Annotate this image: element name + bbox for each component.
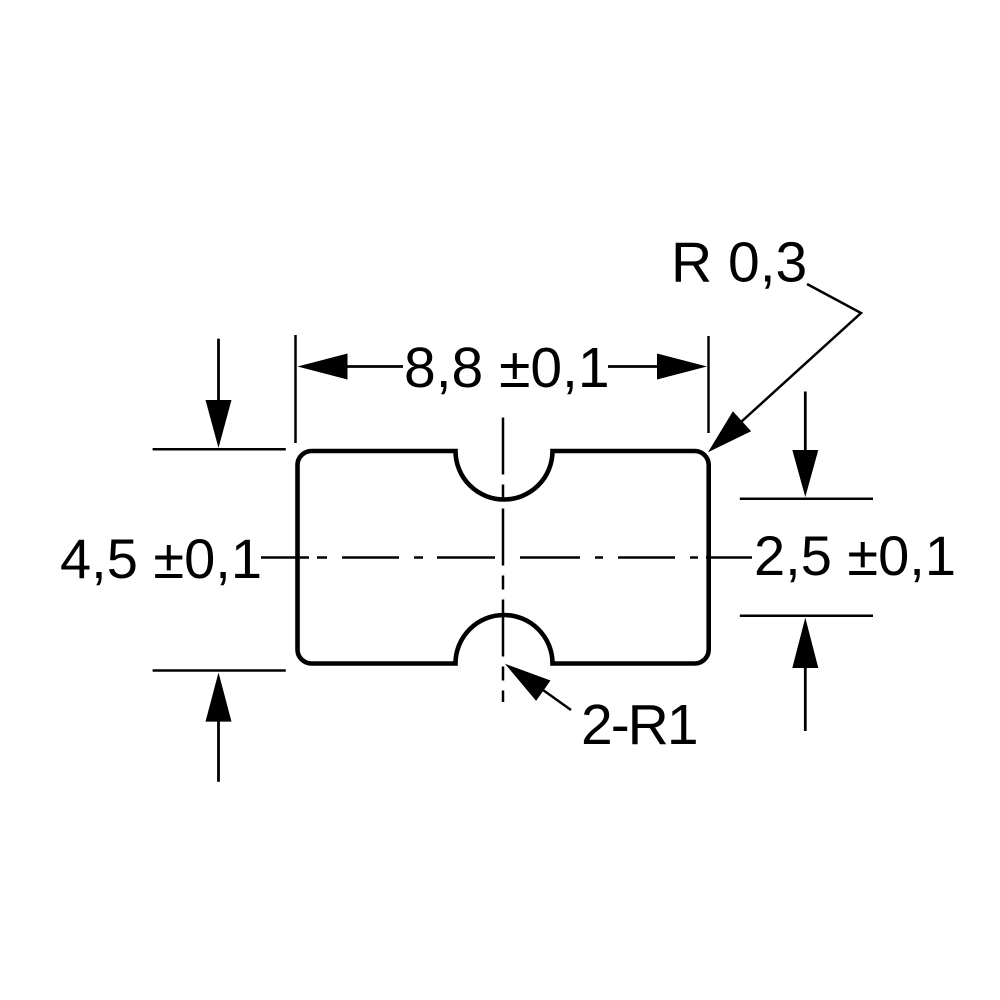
label 2-R1 with leader to bottom notch: [505, 664, 697, 757]
dimension 2,5 ±0,1: bottom arrow (pointing up): [792, 618, 818, 731]
dimension 2,5 ±0,1: top arrow (pointing down): [792, 392, 818, 498]
svg-text:2,5 ±0,1: 2,5 ±0,1: [754, 524, 956, 587]
dimension 4,5 ±0,1: bottom extension line: [153, 669, 286, 672]
dimension 4,5 ±0,1: top extension line: [153, 448, 286, 451]
svg-text:R 0,3: R 0,3: [671, 231, 807, 295]
dimension text 4,5 ±0,1 with connector line: [60, 527, 262, 590]
dimension 4,5 ±0,1: bottom arrow (pointing up): [206, 673, 232, 782]
svg-text:4,5 ±0,1: 4,5 ±0,1: [60, 527, 262, 590]
vertical center line (dashed): [502, 418, 505, 703]
horizontal center line (dash-dot): [261, 556, 752, 559]
svg-text:2-R1: 2-R1: [581, 693, 697, 757]
part outline (rounded rectangle with two R1 notches): [298, 451, 709, 664]
dimension 2,5 ±0,1: top extension line: [740, 498, 873, 501]
dimension 8,8 ±0,1: dimension line with outward arrows: [298, 354, 708, 380]
svg-text:8,8 ±0,1: 8,8 ±0,1: [404, 336, 610, 400]
dimension 8,8 ±0,1: left extension line: [294, 335, 297, 443]
dimension text 8,8 ±0,1: [404, 336, 610, 400]
label R 0,3 with leader to top-right corner: [671, 231, 861, 453]
dimension text 2,5 ±0,1 with connector line: [754, 524, 956, 587]
dimension 4,5 ±0,1: top arrow (pointing down): [206, 339, 232, 448]
dimension 8,8 ±0,1: right extension line: [707, 336, 710, 433]
dimension 2,5 ±0,1: bottom extension line: [740, 615, 873, 618]
